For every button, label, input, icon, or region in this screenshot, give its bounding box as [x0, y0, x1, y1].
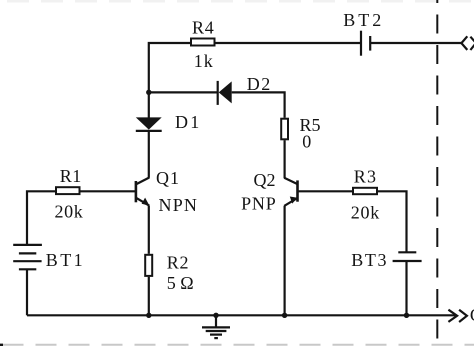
wire: bottom rail — [27, 314, 455, 316]
node junction dot BT3 — [404, 313, 409, 318]
svg-text:R2: R2 — [167, 253, 190, 273]
diode D1 — [136, 117, 162, 130]
wire: R5 to Q2 collector — [284, 140, 286, 178]
wire: Q1 base to R1 — [81, 190, 136, 192]
svg-text:PNP: PNP — [241, 194, 276, 214]
wire: BT1 to bottom rail — [26, 269, 28, 315]
svg-text:NPN: NPN — [159, 195, 199, 215]
svg-text:20k: 20k — [55, 201, 84, 221]
svg-text:C: C — [470, 305, 474, 325]
wire: BT3 to bottom rail — [405, 261, 407, 315]
top gray dashed border — [0, 0, 474, 2]
svg-text:D1: D1 — [175, 112, 201, 132]
connector chevron out (bottom right) — [448, 310, 467, 322]
wire: R1 to left rail, down to BT1 — [27, 191, 55, 245]
svg-text:R3: R3 — [354, 167, 377, 187]
resistor R4 — [191, 39, 215, 46]
transistor Q1 — [136, 178, 150, 206]
svg-text:BT3: BT3 — [351, 250, 388, 270]
connector chevron in (top right) — [461, 36, 474, 50]
svg-text:BT1: BT1 — [46, 250, 85, 270]
resistor R5 — [281, 119, 288, 140]
battery BT2 — [361, 31, 370, 56]
svg-text:BT2: BT2 — [343, 10, 384, 30]
dashed partition line — [436, 0, 438, 348]
resistor R1 — [56, 187, 80, 194]
bottom-left corner black dash — [0, 344, 3, 346]
svg-text:Q1: Q1 — [156, 168, 180, 188]
wire: junction to D2 — [149, 91, 218, 93]
battery BT1 — [13, 245, 42, 269]
svg-text:20k: 20k — [351, 203, 380, 223]
ground — [202, 315, 230, 338]
battery BT3 — [393, 252, 422, 261]
svg-text:R1: R1 — [60, 166, 82, 186]
wire: R2 to bottom rail — [148, 277, 150, 316]
svg-text:5 Ω: 5 Ω — [167, 273, 194, 293]
svg-text:1k: 1k — [194, 51, 214, 71]
transistor Q2 — [284, 178, 297, 206]
wire: top rail right segment — [370, 42, 461, 44]
svg-text:0: 0 — [302, 132, 311, 152]
node junction dot Q2 emitter — [282, 313, 287, 318]
svg-text:D2: D2 — [247, 74, 272, 94]
svg-text:Q2: Q2 — [254, 170, 276, 190]
resistor R3 — [353, 188, 377, 194]
wire: Q2 emitter down to bottom rail — [284, 206, 286, 315]
bottom gray dashed border — [0, 344, 474, 346]
wire: D1 to Q1 collector — [148, 131, 150, 178]
svg-text:R4: R4 — [192, 18, 215, 38]
node junction dot — [146, 90, 151, 95]
diode D2 — [218, 81, 232, 105]
wire: top rail left segment — [149, 43, 361, 118]
node junction dot ground — [213, 313, 218, 318]
wire: R3 to right rail, down to BT3 — [378, 191, 407, 252]
wire: Q2 base to R3 — [298, 190, 353, 192]
resistor R2 — [145, 255, 152, 276]
wire: D2 to R5 corner — [232, 92, 285, 117]
wire: Q1 emitter to R2 — [148, 206, 150, 254]
node junction dot R2 — [146, 313, 151, 318]
